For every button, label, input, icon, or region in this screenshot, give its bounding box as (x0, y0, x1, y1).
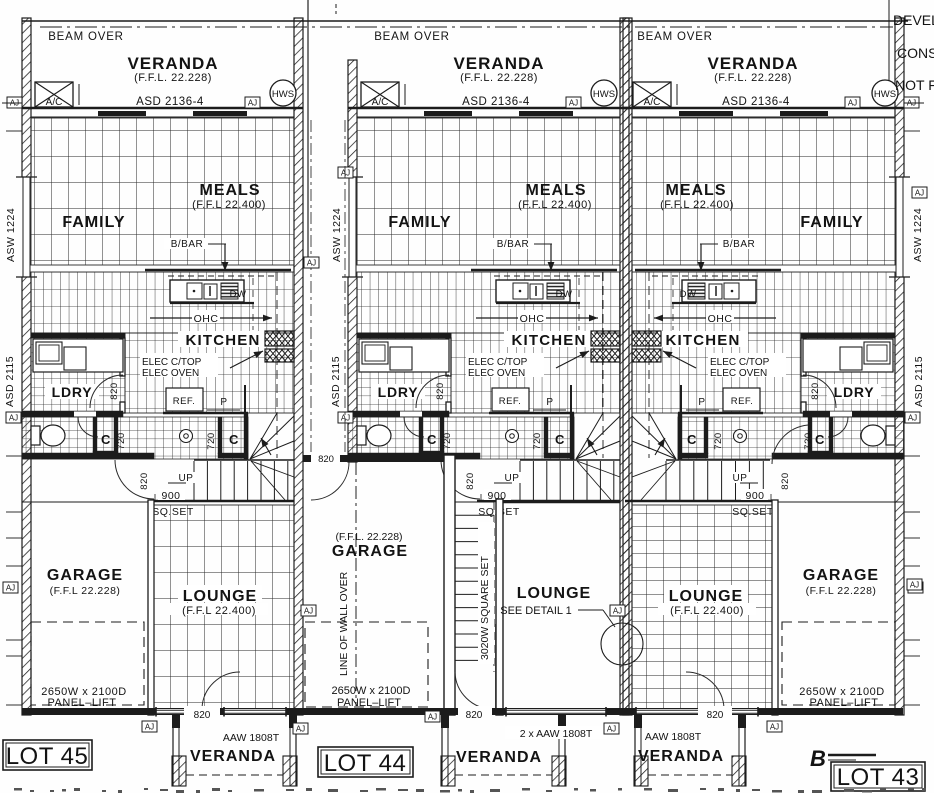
unit3 family/meals tiled floor (632, 118, 895, 265)
unit2 B/BAR label and arrow (490, 238, 536, 249)
unit2 bench under edge (496, 302, 580, 304)
unit2 veranda edge line (348, 107, 629, 110)
main bottom wall (22, 708, 903, 715)
svg-text:B: B (810, 746, 826, 771)
unit2 kitchen lower tiled floor (451, 333, 620, 413)
svg-text:GARAGE: GARAGE (47, 567, 123, 584)
unit1 stair treads (194, 459, 294, 461)
svg-text:820: 820 (465, 472, 476, 489)
svg-text:(F.F.L 22.400): (F.F.L 22.400) (518, 199, 592, 211)
svg-text:GARAGE: GARAGE (332, 543, 408, 560)
unit1 kitchen lower tiled floor (125, 333, 294, 413)
unit3 landing door arc (772, 425, 808, 464)
svg-text:A/C: A/C (644, 97, 661, 108)
unit3 stair treads (666, 459, 770, 461)
unit1 dimension 900 (158, 489, 185, 500)
unit2 garage door arc (311, 462, 349, 500)
unit2 stair treads (520, 459, 620, 461)
svg-text:AJ: AJ (9, 414, 18, 423)
unit3 pantry arrow (663, 351, 696, 368)
right edge AJ near garage (907, 579, 922, 590)
unit1 wc bottom wall (22, 453, 154, 459)
unit2 garage right wall (444, 455, 455, 715)
unit3 side wall window ASW 1224 (894, 177, 905, 277)
svg-text:MEALS: MEALS (526, 182, 587, 199)
svg-text:P: P (698, 397, 705, 408)
svg-text:FAMILY: FAMILY (62, 214, 125, 231)
svg-text:ASD 2136-4: ASD 2136-4 (462, 96, 530, 108)
unit2 stair bottom door arc (455, 672, 493, 709)
unit3 lounge rear door arc (686, 672, 724, 708)
unit1 edge AJ markers (7, 97, 22, 108)
unit1 ELEC C/TOP and OVEN labels (140, 353, 218, 377)
unit1 sliding door ASD 2136-4 bars (98, 111, 146, 116)
unit2 laundry tub (390, 347, 412, 370)
unit3 rear veranda (634, 715, 636, 786)
unit1 laundry tiled floor (31, 333, 125, 413)
unit2 edge AJ markers (338, 167, 353, 178)
unit1 room label KITCHEN (178, 331, 268, 347)
unit3 veranda edge line (623, 107, 904, 110)
unit2 line of wall over dash-dot line (355, 462, 357, 706)
unit1 OHC overhead cupboard arrow (150, 317, 272, 319)
unit3 outer side wall (895, 18, 904, 715)
svg-text:720: 720 (442, 432, 453, 449)
svg-text:ASD 2115: ASD 2115 (4, 356, 16, 407)
unit1 kitchen bench (168, 275, 277, 277)
unit2 AJ marker near veranda (566, 97, 581, 108)
LOT 43 title box (831, 762, 925, 791)
unit1 landing door arc (115, 460, 154, 499)
svg-text:(F.F.L 22.228): (F.F.L 22.228) (806, 585, 877, 597)
unit2 lounge walls (496, 499, 503, 715)
unit1 garage door dashed outline (31, 622, 144, 705)
unit3 kitchen sink (724, 283, 739, 299)
svg-text:AJ: AJ (569, 99, 578, 108)
unit1 edge ticks (6, 130, 22, 132)
svg-text:AJ: AJ (341, 414, 350, 423)
unit2 wc bottom wall (348, 453, 480, 459)
unit1 label SQ.SET (152, 505, 194, 517)
unit2 detail leader and circle (578, 609, 603, 611)
unit1 pantry shelves (265, 331, 294, 346)
svg-text:HWS: HWS (272, 89, 294, 100)
svg-text:NOT FO: NOT FO (895, 77, 934, 93)
unit2 pantry arrow (556, 351, 589, 368)
svg-text:AJ: AJ (341, 169, 350, 178)
svg-text:BEAM OVER: BEAM OVER (637, 31, 713, 43)
unit2 smoke detector symbol (506, 430, 519, 443)
svg-text:P: P (220, 397, 227, 408)
svg-text:820: 820 (810, 382, 821, 399)
unit3 laundry sink (864, 342, 890, 364)
svg-text:(F.F.L 22.400): (F.F.L 22.400) (660, 199, 734, 211)
unit3 stair direction arrow (655, 438, 665, 455)
unit3 HWS hot water unit (872, 80, 898, 106)
svg-text:DW: DW (230, 289, 247, 300)
unit3 stair winder (632, 416, 676, 459)
unit1 side wall window ASW 1224 (21, 177, 32, 277)
unit3 laundry tub (840, 347, 862, 370)
unit1 smoke detector symbol (180, 430, 193, 443)
svg-text:A/C: A/C (372, 97, 389, 108)
unit3 kitchen half wall (635, 269, 781, 271)
svg-text:VERANDA: VERANDA (456, 749, 542, 766)
LOT 45 title box (3, 740, 92, 770)
unit3 smoke detector symbol (734, 430, 747, 443)
svg-text:ASW 1224: ASW 1224 (912, 208, 924, 262)
unit1 HWS hot water unit (270, 80, 296, 106)
unit2 side wall window ASW 1224 (347, 177, 358, 277)
unit2 laundry top wall (357, 333, 451, 338)
svg-text:OHC: OHC (520, 313, 545, 325)
svg-text:AJ: AJ (145, 723, 154, 732)
unit3 lounge walls (772, 500, 778, 715)
svg-text:ELEC C/TOP: ELEC C/TOP (710, 357, 770, 368)
unit2 kitchen half wall (471, 269, 617, 271)
unit1 A/C unit (35, 82, 73, 107)
unit1 room label LOUNGE (178, 585, 262, 602)
svg-text:(F.F.L 22.228): (F.F.L 22.228) (50, 585, 121, 597)
unit2 label SQ.SET (478, 505, 520, 517)
unit3 laundry bench (803, 339, 893, 372)
unit1 rear veranda (172, 715, 174, 786)
svg-text:AAW 1808T: AAW 1808T (645, 731, 702, 743)
svg-text:AJ: AJ (304, 607, 313, 616)
unit2 kitchen upper tiled floor (357, 272, 620, 333)
unit3 fridge space wall (678, 412, 763, 414)
faint cut-off next drawing row (14, 788, 22, 791)
unit2 label UP (502, 472, 522, 483)
svg-text:C: C (687, 432, 697, 447)
svg-text:AJ: AJ (910, 581, 919, 590)
unit3 dishwasher (688, 283, 705, 299)
unit1 closet walls (114, 417, 118, 454)
unit3 toilet (886, 426, 895, 445)
unit2 stair winder (576, 416, 620, 459)
svg-text:REF.: REF. (173, 396, 196, 407)
unit2 dimension 900 (484, 489, 511, 500)
unit2 laundry door arc (416, 375, 449, 408)
unit3 ELEC C/TOP and OVEN labels (708, 353, 786, 377)
unit3 REF box (723, 388, 760, 411)
svg-text:(F.F.L. 22.228): (F.F.L. 22.228) (460, 72, 538, 84)
svg-text:AJ: AJ (428, 713, 437, 722)
unit1 label UP (176, 472, 196, 483)
unit2 REF box (492, 388, 529, 411)
svg-text:B/BAR: B/BAR (497, 239, 530, 250)
right edge AJ below window (912, 187, 927, 198)
unit1 fridge space wall (163, 412, 248, 414)
unit2 kitchen bench (494, 275, 603, 277)
svg-text:(F.F.L 22.400): (F.F.L 22.400) (192, 199, 266, 211)
unit3 rear door 820 (698, 706, 732, 720)
svg-text:720: 720 (803, 432, 814, 449)
svg-text:C: C (101, 432, 111, 447)
svg-text:LOUNGE: LOUNGE (183, 588, 257, 605)
unit3 edge AJ markers (904, 97, 919, 108)
svg-text:PANEL–LIFT: PANEL–LIFT (48, 697, 117, 709)
svg-text:720: 720 (532, 432, 543, 449)
svg-text:LDRY: LDRY (378, 384, 419, 400)
svg-text:AJ: AJ (307, 259, 316, 268)
svg-text:AJ: AJ (6, 584, 15, 593)
bottom wall window slots (156, 709, 186, 714)
svg-text:B/BAR: B/BAR (171, 239, 204, 250)
unit2 wc/hall tiled floor (348, 417, 574, 459)
svg-text:UP: UP (505, 473, 520, 484)
svg-text:LDRY: LDRY (52, 384, 93, 400)
svg-text:820: 820 (194, 710, 211, 721)
svg-text:900: 900 (745, 490, 764, 502)
unit3 wc bottom wall (772, 453, 904, 459)
lot boundary line between lot 45 and 44 (307, 0, 309, 265)
svg-text:MEALS: MEALS (200, 182, 261, 199)
unit2 stair label 3020W SQUARE SET (478, 522, 494, 664)
svg-text:AJ: AJ (613, 607, 622, 616)
unit1 right side AJ (304, 257, 319, 268)
unit1 laundry sink (36, 342, 62, 364)
unit1 kitchen half wall (145, 269, 291, 271)
unit3 laundry side wall (801, 338, 806, 376)
short vertical line top right (888, 0, 890, 100)
unit3 wc door arc (828, 417, 848, 437)
unit2 wc top wall (348, 411, 449, 417)
svg-text:KITCHEN: KITCHEN (185, 332, 260, 349)
svg-text:ASD 2115: ASD 2115 (913, 356, 925, 407)
unit3 kitchen bench (649, 275, 758, 277)
unit2 dishwasher (547, 283, 564, 299)
unit2 A/C unit (361, 82, 399, 107)
svg-text:3020W SQUARE SET: 3020W SQUARE SET (479, 556, 491, 660)
unit1 stair winder (250, 416, 294, 459)
svg-text:C: C (427, 432, 437, 447)
unit3 pantry shelves (632, 331, 661, 346)
svg-text:ELEC OVEN: ELEC OVEN (468, 368, 525, 379)
unit2 garage top wall (303, 455, 311, 462)
svg-text:VERANDA: VERANDA (190, 748, 276, 765)
unit3 laundry tiled floor (801, 333, 895, 413)
unit3 room label LDRY (827, 384, 881, 399)
svg-text:LDRY: LDRY (834, 384, 875, 400)
svg-text:A/C: A/C (46, 97, 63, 108)
unit2 closet walls (440, 417, 444, 454)
svg-text:REF.: REF. (731, 396, 754, 407)
unit3 label UP (730, 472, 750, 483)
unit2 laundry bench (359, 339, 449, 372)
unit3 A/C unit (633, 82, 671, 107)
unit1 kitchen upper tiled floor (31, 272, 294, 333)
unit1 lounge rear door 820 (184, 706, 220, 720)
unit2 rear veranda (441, 715, 443, 786)
unit2 HWS hot water unit (591, 80, 617, 106)
unit3 garage floor line (778, 501, 904, 503)
unit2 room label KITCHEN (504, 331, 594, 347)
unit3 garage door dashed outline (782, 622, 895, 705)
unit3 room label KITCHEN (658, 331, 748, 347)
svg-text:AJ: AJ (296, 725, 305, 734)
svg-text:FAMILY: FAMILY (388, 214, 451, 231)
svg-text:ASW 1224: ASW 1224 (5, 208, 17, 262)
svg-text:ELEC OVEN: ELEC OVEN (710, 368, 767, 379)
unit3 B/BAR label and arrow (716, 238, 762, 249)
svg-text:ELEC C/TOP: ELEC C/TOP (142, 357, 202, 368)
unit2 stair flight down (455, 501, 494, 503)
svg-text:(F.F.L 22.400): (F.F.L 22.400) (670, 605, 744, 617)
unit1 garage floor line (22, 501, 148, 503)
svg-text:ASD 2136-4: ASD 2136-4 (136, 96, 204, 108)
beam over dash-dot line (40, 26, 893, 28)
unit2 outer side wall (348, 60, 357, 462)
unit1 REF box (166, 388, 203, 411)
unit1 lounge rear door arc (202, 672, 240, 708)
svg-text:C: C (815, 432, 825, 447)
svg-text:PANEL–LIFT: PANEL–LIFT (810, 697, 879, 709)
svg-text:LOUNGE: LOUNGE (517, 585, 591, 602)
svg-text:ELEC OVEN: ELEC OVEN (142, 368, 199, 379)
svg-text:DW: DW (680, 289, 697, 300)
unit1 kitchen overhead dashed line (276, 272, 278, 458)
unit3 lounge tiled floor (632, 505, 772, 710)
svg-text:820: 820 (435, 382, 446, 399)
LOT 44 title box (318, 747, 413, 777)
svg-text:AJ: AJ (908, 414, 917, 423)
svg-text:AJ: AJ (915, 189, 924, 198)
svg-text:UP: UP (179, 473, 194, 484)
svg-text:AJ: AJ (848, 99, 857, 108)
unit2 laundry tiled floor (357, 333, 451, 413)
unit1 lounge walls (148, 500, 154, 715)
svg-text:DEVELO: DEVELO (893, 12, 934, 28)
unit3 kitchen overhead dashed line (648, 272, 650, 458)
svg-text:OHC: OHC (708, 313, 733, 325)
svg-text:P: P (546, 397, 553, 408)
unit2 sliding door ASD 2136-4 bars (424, 111, 472, 116)
svg-text:LOT 43: LOT 43 (837, 764, 920, 791)
unit2 kitchen overhead dashed line (602, 272, 604, 458)
svg-text:FAMILY: FAMILY (800, 214, 863, 231)
svg-text:2 x AAW 1808T: 2 x AAW 1808T (520, 728, 593, 740)
unit3 party wall (623, 18, 632, 715)
unit3 OHC overhead cupboard arrow (654, 317, 776, 319)
unit1 laundry bench (33, 339, 123, 372)
unit1 dishwasher (221, 283, 238, 299)
svg-text:MEALS: MEALS (666, 182, 727, 199)
svg-text:820: 820 (466, 710, 483, 721)
unit1 AJ near lounge (301, 605, 316, 616)
svg-text:ELEC C/TOP: ELEC C/TOP (468, 357, 528, 368)
gap strip dashed roof lines (310, 120, 312, 452)
unit2 landing door arc (441, 460, 480, 499)
svg-text:ASD 2136-4: ASD 2136-4 (722, 96, 790, 108)
svg-text:VERANDA: VERANDA (707, 54, 798, 73)
svg-text:HWS: HWS (874, 89, 896, 100)
unit1 laundry side wall (120, 338, 125, 376)
svg-text:B/BAR: B/BAR (723, 239, 756, 250)
unit3 label SQ.SET (732, 505, 774, 517)
svg-text:C: C (555, 432, 565, 447)
unit3 laundry top wall (801, 333, 895, 338)
unit3 dimension 900 (741, 489, 768, 500)
unit1 bench under edge (170, 302, 254, 304)
unit3 AJ marker near veranda (845, 97, 860, 108)
unit1 party wall (294, 18, 303, 715)
svg-text:DW: DW (556, 289, 573, 300)
unit1 AJ marker near veranda (245, 97, 260, 108)
svg-text:VERANDA: VERANDA (638, 748, 724, 765)
unit3 kitchen upper tiled floor (632, 272, 895, 333)
unit2 laundry sink (362, 342, 388, 364)
unit3 bench under edge (672, 302, 756, 304)
svg-text:720: 720 (206, 432, 217, 449)
unit2 OHC overhead cupboard arrow (476, 317, 598, 319)
svg-text:AJ: AJ (607, 725, 616, 734)
unit3 wc top wall (803, 411, 904, 417)
svg-text:LOUNGE: LOUNGE (669, 588, 743, 605)
unit2 fridge space wall (489, 412, 574, 414)
svg-text:720: 720 (713, 432, 724, 449)
top beam line across all units (22, 20, 908, 22)
svg-text:900: 900 (161, 490, 180, 502)
svg-text:OHC: OHC (194, 313, 219, 325)
unit1 B/BAR label and arrow (164, 238, 210, 249)
svg-text:2650W x 2100D: 2650W x 2100D (332, 685, 411, 697)
svg-text:(F.F.L. 22.228): (F.F.L. 22.228) (134, 72, 212, 84)
unit1 toilet (31, 426, 40, 445)
unit1 wc/hall tiled floor (22, 417, 248, 459)
unit1 laundry top wall (31, 333, 125, 338)
svg-text:(F.F.L 22.400): (F.F.L 22.400) (182, 605, 256, 617)
svg-text:(F.F.L. 22.228): (F.F.L. 22.228) (335, 531, 402, 543)
unit2 garage rear door 820 (312, 452, 339, 464)
svg-text:ASW 1224: ASW 1224 (331, 208, 343, 262)
unit3 sliding door ASD 2136-4 bars (780, 111, 828, 116)
unit3 closet walls (808, 417, 812, 454)
unit3 edge ticks (904, 130, 920, 132)
svg-text:LOT 45: LOT 45 (6, 743, 89, 770)
bottom AJ markers (142, 721, 157, 732)
unit3 kitchen lower tiled floor (632, 333, 801, 413)
svg-text:VERANDA: VERANDA (453, 54, 544, 73)
unit2 wc door arc (404, 417, 424, 437)
unit3 laundry door arc (803, 375, 836, 408)
unit2 family/meals tiled floor (357, 118, 620, 265)
svg-text:820: 820 (780, 472, 791, 489)
svg-text:PANEL–LIFT: PANEL–LIFT (337, 697, 401, 709)
unit1 kitchen sink (187, 283, 202, 299)
svg-text:820: 820 (707, 710, 724, 721)
svg-text:SEE DETAIL 1: SEE DETAIL 1 (500, 605, 572, 617)
svg-text:BEAM OVER: BEAM OVER (48, 31, 124, 43)
unit1 lounge tiled floor (154, 505, 294, 710)
svg-text:KITCHEN: KITCHEN (511, 332, 586, 349)
svg-text:LOT 44: LOT 44 (324, 750, 407, 777)
unit1 wc top wall (22, 411, 123, 417)
unit1 veranda edge line (22, 107, 303, 110)
svg-text:820: 820 (139, 472, 150, 489)
unit1 wc door arc (78, 417, 98, 437)
unit1 laundry tub (64, 347, 86, 370)
unit1 outer side wall (22, 18, 31, 715)
svg-text:820: 820 (318, 454, 334, 465)
svg-text:AAW 1808T: AAW 1808T (223, 732, 280, 744)
svg-text:UP: UP (733, 473, 748, 484)
unit1 room label LDRY (45, 384, 99, 399)
svg-text:AJ: AJ (770, 723, 779, 732)
tick mark top center (335, 4, 337, 14)
svg-text:HWS: HWS (593, 89, 615, 100)
unit2 ELEC C/TOP and OVEN labels (466, 353, 544, 377)
